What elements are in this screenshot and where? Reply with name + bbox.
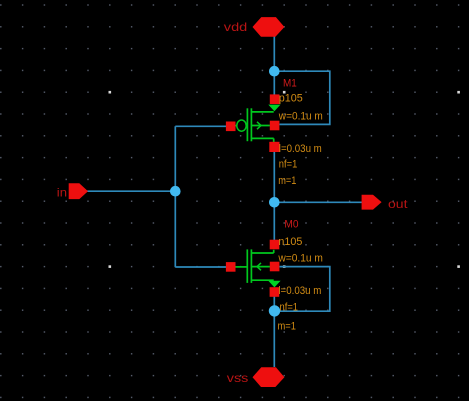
svg-text:vss: vss [227, 371, 249, 385]
value label nf=1 (M0) [280, 301, 299, 313]
wire M0 bulk loop to vss junction [275, 267, 330, 312]
svg-text:w=0.1u m: w=0.1u m [277, 253, 322, 265]
svg-text:nf=1: nf=1 [279, 158, 298, 170]
wire M1 bulk loop to vdd junction [274, 71, 330, 124]
svg-text:M1: M1 [283, 78, 297, 90]
value label n105 [278, 236, 302, 248]
pin M0 drain [270, 240, 280, 250]
transistor M1 pmos symbol body [235, 105, 281, 144]
power symbol vdd hexagon [253, 17, 285, 37]
pin M0 source (to vss) [270, 287, 280, 297]
svg-text:in: in [57, 186, 67, 200]
svg-text:p105: p105 [279, 93, 303, 105]
wire input vertical net [174, 126, 176, 267]
wire in port to input junction [86, 190, 175, 192]
value label w=0.1u m (M0) [277, 253, 322, 265]
svg-text:n105: n105 [278, 236, 302, 248]
svg-text:l=0.03u m: l=0.03u m [279, 143, 322, 155]
value label w=0.1u m [278, 110, 323, 122]
pin M0 bulk [270, 262, 280, 272]
svg-text:out: out [388, 197, 408, 211]
pin M1 source (to vdd) [270, 94, 280, 104]
wire junction to M1 source pin [273, 71, 275, 96]
pin M1 drain [269, 142, 279, 152]
svg-text:nf=1: nf=1 [280, 301, 299, 313]
net label vdd [224, 20, 248, 34]
port pin out (output arrow) [362, 195, 382, 210]
wire M0 source to vss [273, 292, 275, 367]
net label vss [227, 371, 249, 385]
net label in [57, 186, 67, 200]
svg-text:m=1: m=1 [278, 320, 297, 332]
svg-text:m=1: m=1 [278, 175, 296, 187]
wire M1 drain to M0 drain (out net) [273, 147, 275, 245]
svg-text:l=0.03u m: l=0.03u m [278, 285, 321, 297]
net label out [388, 197, 408, 211]
value label m=1 [278, 175, 296, 187]
junction vdd node [269, 66, 280, 77]
value label nf=1 [279, 158, 298, 170]
wire out junction to out port [274, 201, 363, 203]
svg-text:w=0.1u m: w=0.1u m [278, 110, 323, 122]
value label l=0.03u m (M0) [278, 285, 321, 297]
wire vdd supply to junction [273, 37, 275, 72]
transistor M0 nmos symbol body [235, 249, 281, 287]
instance name M0 [284, 218, 298, 230]
power symbol vss hexagon [253, 367, 285, 387]
value label p105 [279, 93, 303, 105]
wire to M1 gate pin [175, 125, 227, 127]
port pin in (input arrow) [69, 183, 88, 199]
junction vss node [269, 305, 280, 316]
junction input node [170, 186, 181, 197]
svg-text:M0: M0 [284, 218, 298, 230]
pin M1 gate [226, 122, 236, 132]
instance name M1 [283, 78, 297, 90]
pin M1 bulk [270, 121, 280, 131]
wire to M0 gate pin [175, 266, 227, 268]
value label l=0.03u m [279, 143, 322, 155]
pin M0 gate [226, 262, 236, 272]
value label m=1 (M0) [278, 320, 297, 332]
svg-text:vdd: vdd [224, 20, 248, 34]
junction out node [269, 197, 280, 208]
